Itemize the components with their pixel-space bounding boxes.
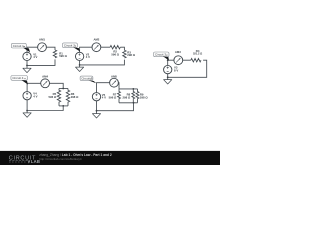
svg-text:AM1: AM1 [39, 37, 45, 41]
svg-text:Circuit 4: Circuit 4 [12, 76, 23, 80]
svg-text:AM5: AM5 [111, 75, 117, 79]
svg-text:298 Ω: 298 Ω [140, 95, 148, 99]
svg-text:AM2: AM2 [93, 37, 99, 41]
svg-text:298 Ω: 298 Ω [123, 95, 131, 99]
svg-text:596 Ω: 596 Ω [111, 53, 119, 57]
svg-text:298 Ω: 298 Ω [71, 95, 79, 99]
svg-text:4 V: 4 V [33, 95, 37, 99]
svg-text:596 Ω: 596 Ω [109, 95, 117, 99]
svg-text:8 V: 8 V [174, 68, 178, 72]
svg-text:AM3: AM3 [175, 50, 181, 54]
svg-text:521.2 Ω: 521.2 Ω [193, 52, 202, 56]
svg-text:Circuit 3: Circuit 3 [155, 53, 166, 57]
svg-text:4 V: 4 V [86, 55, 90, 59]
svg-text:http://circuitlab.com/c/e8s4kw: http://circuitlab.com/c/e8s4kwy4 [39, 157, 82, 161]
svg-text:Circuit 2: Circuit 2 [64, 44, 75, 48]
svg-text:AM4: AM4 [42, 75, 48, 79]
svg-text:298 Ω: 298 Ω [127, 53, 135, 57]
svg-text:Circuit 1: Circuit 1 [13, 44, 24, 48]
svg-text:596 Ω: 596 Ω [49, 95, 57, 99]
svg-text:596 Ω: 596 Ω [59, 54, 67, 58]
svg-text:4 V: 4 V [33, 55, 37, 59]
svg-text:4 V: 4 V [102, 96, 106, 100]
